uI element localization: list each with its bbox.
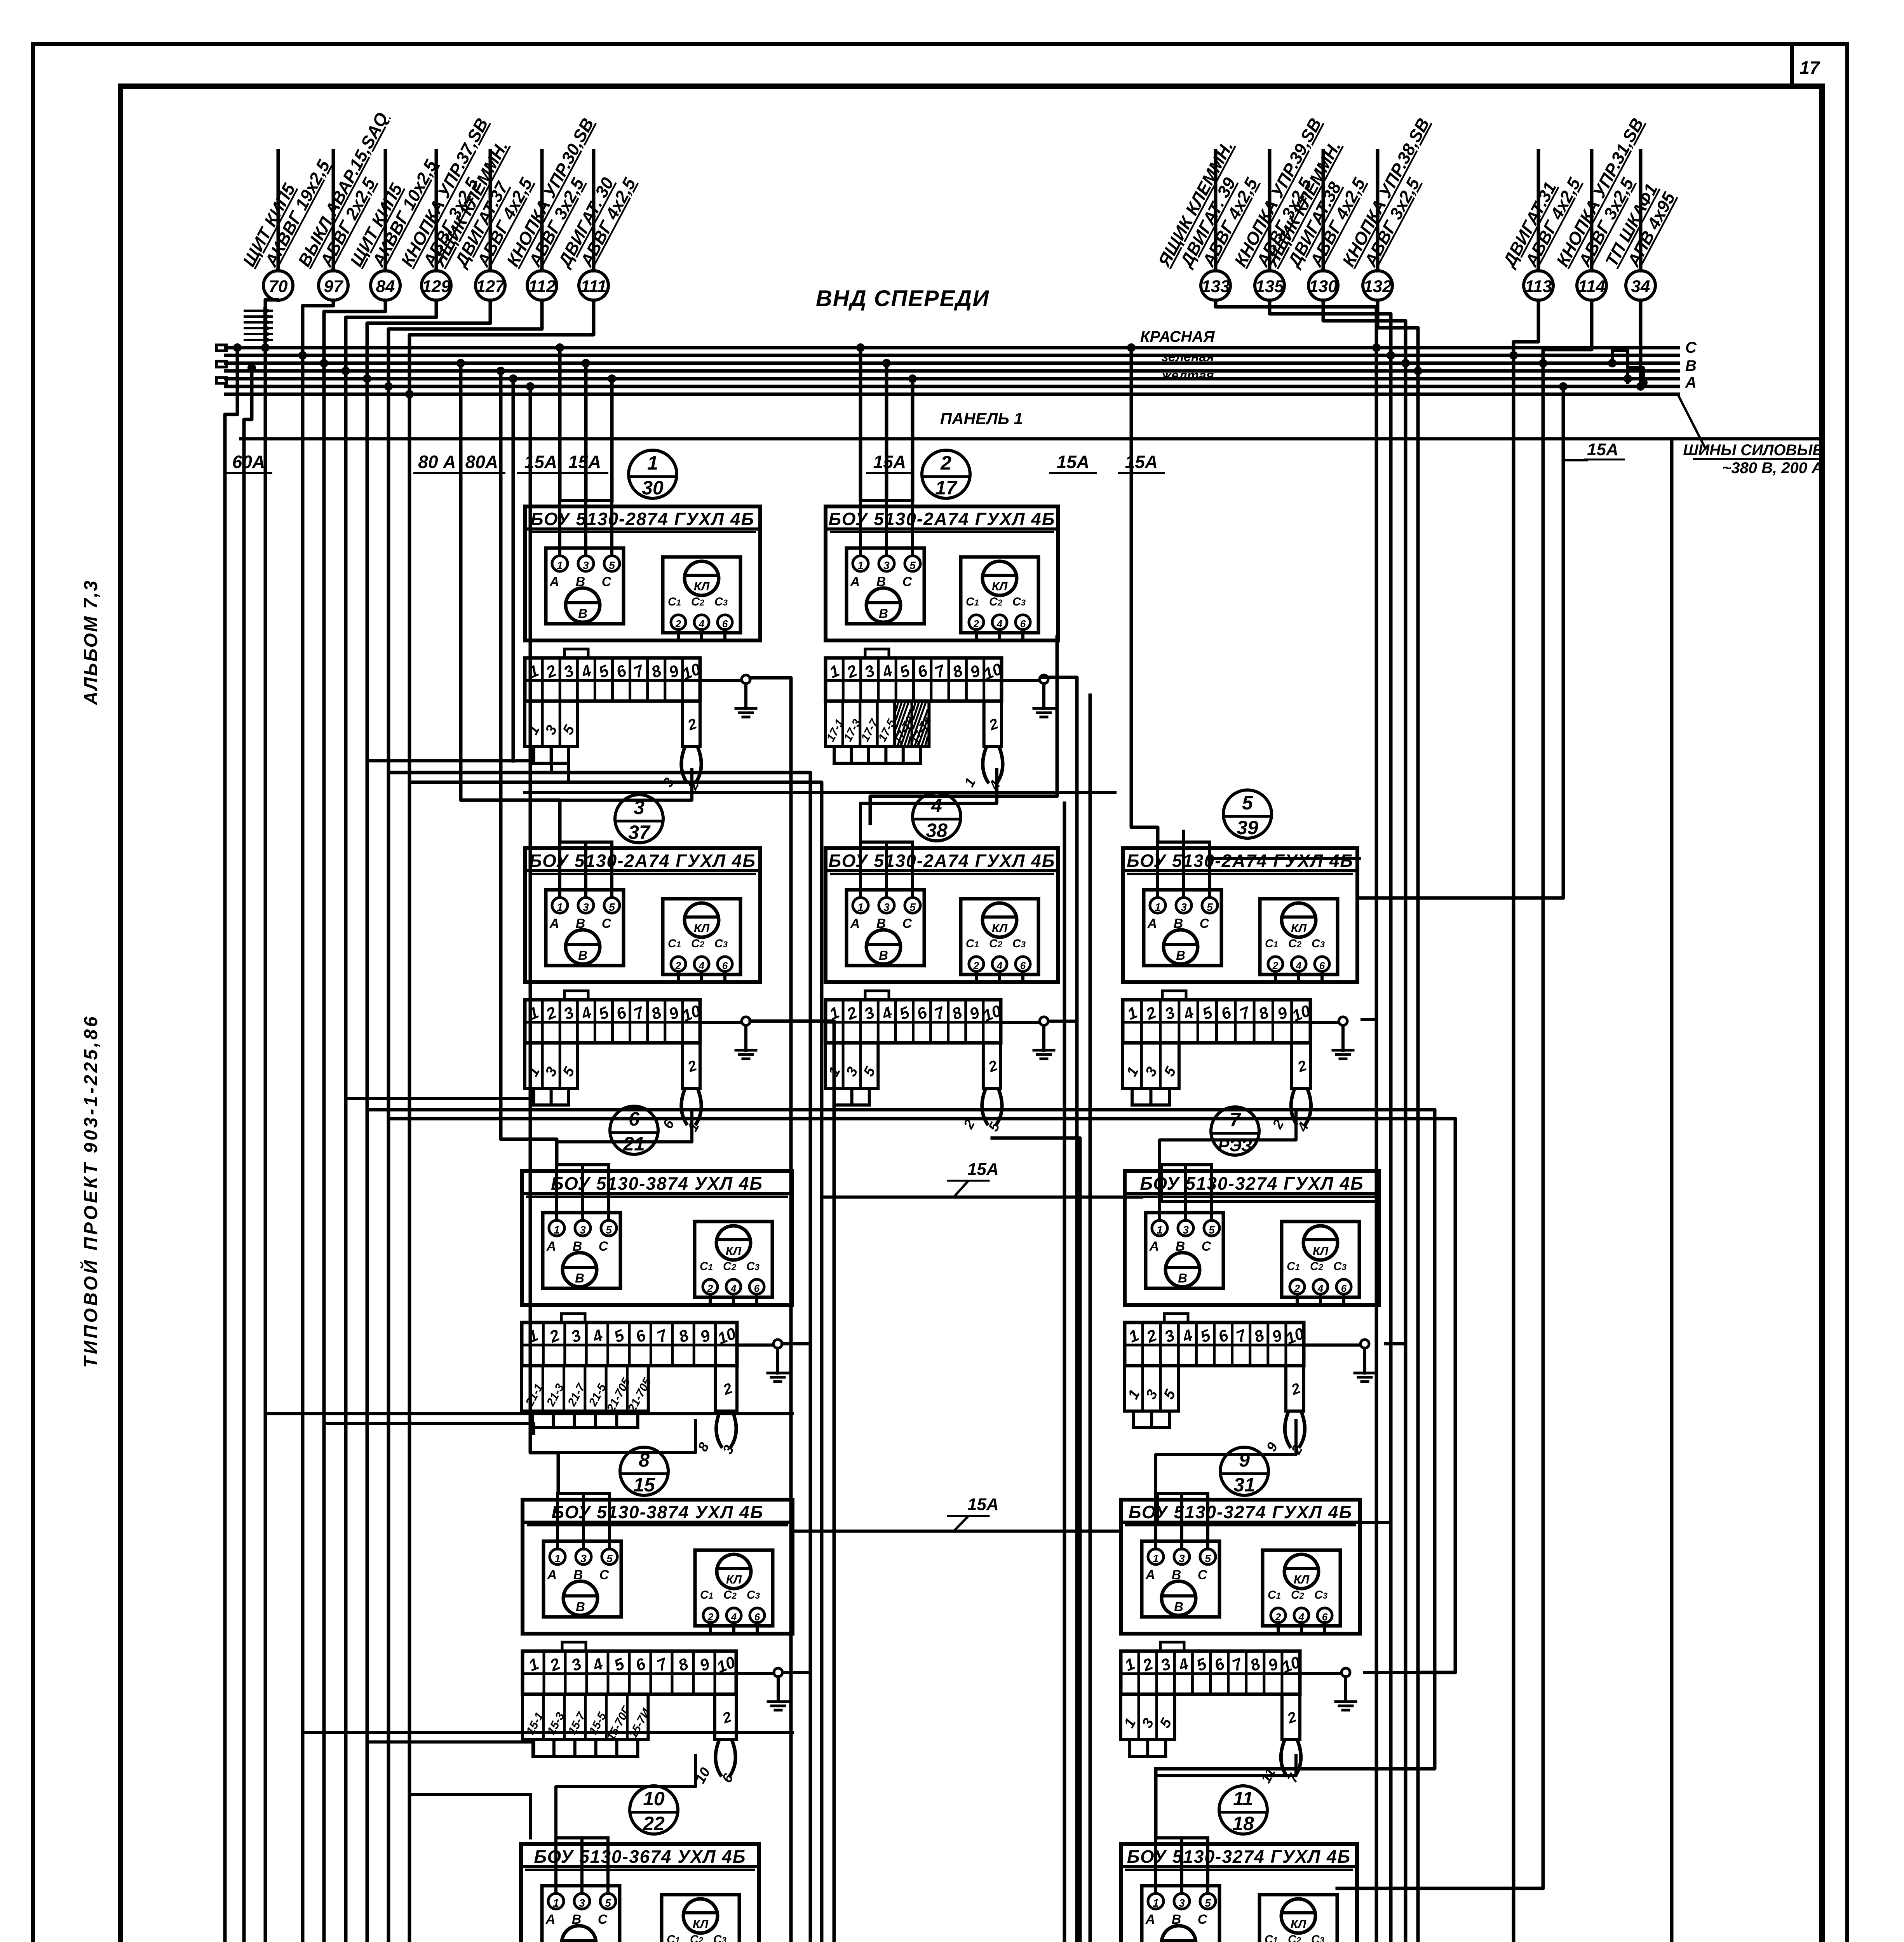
svg-text:КЛ: КЛ [1294, 1573, 1310, 1586]
KL circle [683, 1899, 718, 1933]
cable circle 127 [489, 151, 492, 271]
svg-text:С: С [1200, 916, 1209, 931]
row2 jog wires [346, 1091, 534, 1098]
meter circle [563, 1253, 597, 1287]
svg-text:1: 1 [557, 559, 563, 571]
pin 1 [548, 1893, 564, 1909]
block9 ground wire down [1364, 1671, 1418, 1674]
feed wire pin 3 [584, 500, 587, 556]
header bar [1125, 1192, 1379, 1195]
fork wires [681, 747, 688, 783]
pin 5 [1204, 1220, 1219, 1236]
meter circle [562, 1926, 596, 1942]
wire [1323, 300, 1406, 1942]
feed wire pin 3 [885, 500, 888, 556]
block3 ground wire [750, 1021, 834, 1942]
device block U6 БОУ 5130-3874 УХЛ 4Б [522, 1165, 792, 1457]
sub stub [573, 1411, 576, 1428]
ground [1310, 1021, 1339, 1024]
svg-text:3: 3 [580, 1224, 586, 1236]
feed wire pin 1 [859, 500, 862, 556]
device block U9 БОУ 5130-3274 ГУХЛ 4Б [1121, 1493, 1360, 1785]
designator circle 1/30 [629, 450, 677, 498]
svg-text:А: А [1149, 1239, 1159, 1254]
meter circle [566, 930, 600, 964]
fork wires [982, 1088, 988, 1125]
sub stub [833, 747, 836, 763]
cable circle 111 [592, 151, 596, 271]
feed wire pin 3 [580, 1838, 584, 1893]
pin 5 [1200, 1893, 1216, 1909]
svg-text:6: 6 [754, 1611, 760, 1623]
svg-text:114: 114 [1578, 277, 1605, 296]
terminal box ABC [546, 890, 624, 966]
svg-text:В: В [576, 1599, 585, 1614]
sub terminals [525, 701, 577, 747]
svg-text:БОУ 5130-2А74 ГУХЛ 4Б: БОУ 5130-2А74 ГУХЛ 4Б [829, 851, 1056, 871]
svg-text:~380 В, 200 А: ~380 В, 200 А [1722, 459, 1823, 477]
cable circle 133 [1214, 151, 1218, 271]
cable circle 97 [332, 151, 335, 271]
svg-text:В: В [1176, 948, 1185, 962]
sub stub [850, 1088, 854, 1105]
sub stub merge wire [834, 1103, 869, 1107]
svg-text:В: В [1685, 357, 1697, 374]
wire [1378, 300, 1418, 1942]
svg-text:80 А: 80 А [418, 452, 456, 472]
wire [1270, 300, 1391, 1942]
fork wires [1281, 1740, 1287, 1777]
svg-text:6: 6 [722, 618, 728, 630]
svg-text:КЛ: КЛ [992, 579, 1008, 593]
sub stub [552, 1740, 556, 1756]
svg-text:15А: 15А [1587, 440, 1618, 459]
svg-text:1: 1 [557, 901, 563, 913]
header bar [522, 1192, 792, 1195]
device block U5 БОУ 5130-2А74 ГУХЛ 4Б [1123, 842, 1357, 1134]
svg-text:А: А [1145, 1912, 1155, 1927]
terminal box ABC [1146, 1213, 1223, 1288]
svg-text:17: 17 [935, 477, 958, 499]
feed header wire [861, 840, 913, 844]
row1 sub-terminal jog wires [367, 750, 534, 761]
svg-text:6: 6 [1341, 1282, 1347, 1294]
sub stub [615, 1411, 618, 1428]
svg-text:ПАНЕЛЬ 1: ПАНЕЛЬ 1 [940, 409, 1023, 428]
svg-text:АЛЬБОМ 7,3: АЛЬБОМ 7,3 [81, 579, 101, 705]
svg-text:КЛ: КЛ [1313, 1244, 1329, 1258]
terminal box ABC [1144, 890, 1221, 966]
pin 6 [749, 1279, 764, 1294]
bus feed arrows [245, 310, 272, 312]
wire [303, 300, 333, 1942]
svg-text:5: 5 [909, 559, 916, 571]
cable circle 132 [1376, 151, 1380, 271]
wire mid pair2 [958, 695, 1090, 1942]
feed wire pin 3 [582, 1493, 585, 1549]
pin 2 [671, 615, 686, 630]
sub terminals [525, 1043, 577, 1088]
block5 feeds [1182, 831, 1185, 842]
pin 1 [1150, 898, 1165, 913]
cable circle 130 [1322, 151, 1325, 271]
pin 5 [905, 556, 920, 571]
terminal box ABC [543, 1213, 620, 1288]
feed wire pin 5 [1208, 842, 1211, 898]
sub stub [1150, 1411, 1153, 1428]
svg-text:111: 111 [581, 277, 607, 296]
svg-text:2: 2 [973, 618, 979, 630]
designator circle 4/38 [913, 793, 961, 841]
KL circle [717, 1554, 751, 1589]
feed header wire [557, 1492, 610, 1495]
svg-text:БОУ 5130-2А74 ГУХЛ 4Б: БОУ 5130-2А74 ГУХЛ 4Б [829, 509, 1056, 529]
feeds block1 drops [558, 348, 562, 500]
jumper bump [865, 991, 889, 1000]
pin 2 [703, 1279, 718, 1294]
feed wire pin 1 [558, 500, 561, 556]
svg-text:3: 3 [883, 901, 890, 913]
pin 3 [879, 898, 894, 913]
svg-text:84: 84 [376, 277, 395, 296]
svg-text:А: А [549, 916, 559, 931]
svg-text:А: А [547, 1568, 557, 1582]
terminal box ABC [544, 1541, 621, 1617]
KL circle [982, 561, 1017, 595]
top power bus (7 lines) [226, 346, 1678, 350]
wire right long [1670, 439, 1674, 1942]
sub terminals [1121, 1694, 1174, 1740]
cable circle 70 [277, 151, 280, 271]
15A drop right [1563, 459, 1587, 461]
sub stub [594, 1411, 597, 1428]
pin 5 [600, 1893, 616, 1909]
row3 jogs [265, 1412, 793, 1415]
svg-text:1: 1 [554, 1552, 561, 1564]
svg-text:С: С [1202, 1239, 1211, 1254]
sub terminals [523, 1694, 648, 1740]
device block U2 БОУ 5130-2А74 ГУХЛ 4Б [824, 500, 1058, 792]
svg-text:30: 30 [642, 477, 664, 499]
cable circle 112 [540, 151, 544, 271]
pin 3 [1174, 1893, 1190, 1909]
sub stub [567, 1088, 570, 1105]
cable circle 114 [1590, 151, 1594, 271]
jumper bump [562, 1642, 586, 1651]
svg-text:КЛ: КЛ [693, 1917, 709, 1931]
pin 1 [552, 898, 568, 913]
svg-text:БОУ 5130-3274 ГУХЛ 4Б: БОУ 5130-3274 ГУХЛ 4Б [1140, 1173, 1364, 1194]
svg-text:3: 3 [583, 901, 589, 913]
relay box КЛ [1260, 899, 1338, 974]
feed wire pin 3 [1180, 1838, 1183, 1893]
row3 to row4 wires [558, 1421, 695, 1493]
svg-text:2: 2 [707, 1282, 713, 1294]
svg-text:3: 3 [1181, 901, 1187, 913]
header bar [521, 1865, 759, 1868]
terminal strip 1-10 [525, 1000, 700, 1043]
wire from bus end down [225, 348, 237, 1942]
pin 4 [726, 1608, 741, 1623]
feed header wire [1160, 1163, 1212, 1166]
terminal box ABC [546, 548, 624, 624]
sub terminals [1125, 1366, 1178, 1411]
terminal 2 cell [1282, 1694, 1300, 1740]
sub stub [868, 1088, 871, 1105]
wire [1216, 300, 1376, 1942]
svg-text:6: 6 [722, 960, 728, 971]
svg-text:зеленая: зеленая [1162, 350, 1214, 364]
svg-text:3: 3 [580, 1552, 587, 1564]
svg-text:КЛ: КЛ [694, 579, 710, 593]
feed wire pin 5 [610, 500, 613, 556]
panel top line [241, 437, 1822, 440]
feed wire pin 1 [555, 1165, 558, 1220]
svg-text:1: 1 [647, 452, 658, 474]
pin 1 [549, 1220, 564, 1236]
svg-text:БОУ 5130-3274 ГУХЛ 4Б: БОУ 5130-3274 ГУХЛ 4Б [1127, 1846, 1351, 1867]
long mid vertical 2 [409, 782, 822, 1942]
svg-text:4: 4 [1298, 1611, 1305, 1623]
svg-text:4: 4 [699, 618, 705, 630]
feed wire pin 1 [859, 842, 862, 898]
sub stub merge wire [1130, 1755, 1165, 1758]
sub stub [1128, 1740, 1131, 1756]
svg-text:С: С [599, 1239, 608, 1254]
feed header wire [861, 499, 913, 502]
svg-text:2: 2 [675, 618, 681, 630]
svg-text:А: А [1145, 1568, 1155, 1582]
cable circle 135 [1268, 151, 1272, 271]
wire mid pair [1042, 677, 1077, 1942]
svg-text:В: В [575, 1271, 584, 1285]
svg-text:А: А [545, 1912, 556, 1927]
cable circle 34 [1639, 151, 1643, 271]
svg-text:КЛ: КЛ [992, 921, 1008, 935]
terminal 2 cell [715, 1694, 736, 1740]
pin 6 [750, 1608, 765, 1623]
svg-text:С: С [598, 1912, 608, 1927]
relay box КЛ [663, 899, 740, 974]
jumper bump [1160, 1642, 1184, 1651]
pin 6 [1016, 615, 1030, 630]
designator circle 3/37 [615, 795, 663, 843]
sub stub merge wire [534, 1103, 569, 1107]
sub stub [1146, 1740, 1149, 1756]
sub stub merge wire [533, 1755, 638, 1758]
device block U8 БОУ 5130-3874 УХЛ 4Б [523, 1493, 793, 1786]
terminal box ABC [1142, 1541, 1219, 1617]
sub stub [1131, 1088, 1134, 1105]
sub stub merge wire [1134, 1426, 1169, 1429]
wire 114 down [1337, 300, 1592, 1888]
header bar [826, 869, 1058, 872]
relay box КЛ [1259, 1895, 1337, 1942]
terminal 2 cell [683, 701, 700, 747]
ground [700, 1021, 742, 1024]
svg-text:КЛ: КЛ [694, 921, 710, 935]
svg-text:4: 4 [996, 960, 1003, 971]
pin 1 [552, 556, 568, 571]
svg-text:1: 1 [553, 1897, 559, 1909]
pin 2 [969, 615, 984, 630]
svg-text:18: 18 [1232, 1813, 1254, 1834]
designator circle 10/22 [630, 1786, 678, 1834]
svg-text:3: 3 [1183, 1224, 1189, 1236]
pin 4 [694, 957, 709, 971]
pin 3 [575, 1220, 591, 1236]
pin 5 [1200, 1549, 1216, 1564]
svg-text:70: 70 [269, 277, 288, 296]
svg-text:2: 2 [707, 1611, 714, 1623]
pin 6 [1336, 1279, 1351, 1294]
svg-text:БОУ 5130-2А74 ГУХЛ 4Б: БОУ 5130-2А74 ГУХЛ 4Б [1127, 851, 1354, 871]
feed wire pin 1 [1158, 1165, 1161, 1220]
jumper bump [865, 649, 889, 658]
svg-text:60А: 60А [232, 452, 265, 472]
terminal 2 cell [1286, 1366, 1304, 1411]
terminal box ABC [1142, 1886, 1219, 1942]
pin 3 [578, 898, 594, 913]
feed header wire [1158, 840, 1210, 844]
feed header wire [1156, 1492, 1208, 1495]
pin 3 [576, 1549, 591, 1564]
sub stub [567, 747, 570, 763]
feed wire pin 5 [608, 1493, 611, 1549]
terminal strip 1-10 [523, 1651, 736, 1694]
feed wire pin 1 [1154, 1838, 1157, 1893]
svg-text:ВНД СПЕРЕДИ: ВНД СПЕРЕДИ [816, 286, 989, 311]
terminal 2 cell [983, 1043, 1001, 1088]
svg-text:БОУ 5130-3674 УХЛ 4Б: БОУ 5130-3674 УХЛ 4Б [534, 1846, 746, 1867]
wire [324, 300, 385, 1942]
pin 5 [1202, 898, 1218, 913]
svg-text:6: 6 [1322, 1611, 1328, 1623]
sub stub merge wire [534, 762, 569, 765]
svg-text:127: 127 [476, 277, 505, 296]
KL circle [1281, 1899, 1315, 1933]
feed wire pin 3 [1180, 1493, 1183, 1549]
svg-text:В: В [1174, 1599, 1183, 1614]
svg-text:2: 2 [675, 960, 681, 971]
device block U4 БОУ 5130-2А74 ГУХЛ 4Б [826, 842, 1058, 1134]
feed header wire [556, 1836, 608, 1839]
wire [409, 300, 594, 1942]
jumper bump [561, 1314, 585, 1323]
pin 1 [1148, 1893, 1164, 1909]
wire [244, 368, 252, 1942]
ground [1002, 679, 1040, 682]
pin 1 [853, 898, 868, 913]
sub stub [919, 747, 922, 763]
svg-text:С: С [902, 574, 912, 589]
svg-text:133: 133 [1201, 277, 1230, 296]
svg-text:5: 5 [1205, 1552, 1211, 1564]
svg-text:129: 129 [422, 277, 451, 296]
terminal strip 1-10 [1121, 1651, 1300, 1694]
svg-text:15А: 15А [1057, 452, 1089, 472]
svg-text:4: 4 [1317, 1282, 1324, 1294]
svg-text:В: В [879, 948, 888, 962]
sub stub [1164, 1740, 1167, 1756]
svg-text:5: 5 [1209, 1224, 1215, 1236]
svg-text:15: 15 [633, 1474, 655, 1496]
relay box КЛ [961, 557, 1038, 633]
svg-text:С: С [602, 916, 611, 931]
pin 3 [879, 556, 894, 571]
sub stub [867, 747, 870, 763]
feed wire pin 1 [1156, 842, 1159, 898]
fork wires [1285, 1411, 1291, 1448]
block6 ground wire [782, 1342, 810, 1345]
wire 113 down [1514, 300, 1538, 1942]
header bar [1121, 1521, 1360, 1524]
fork wires [1291, 1088, 1297, 1125]
pin 2 [1268, 957, 1283, 971]
feed wire pin 3 [1182, 842, 1185, 898]
relay box КЛ [1282, 1222, 1359, 1297]
device block U11 БОУ 5130-3274 ГУХЛ 4Б [1120, 1838, 1357, 1942]
svg-text:С: С [1198, 1912, 1207, 1927]
svg-text:А: А [1685, 374, 1697, 391]
long mid vertical 1 [388, 773, 810, 1942]
svg-text:1: 1 [1157, 1224, 1163, 1236]
designator circle 6/21 [610, 1106, 658, 1154]
pin 4 [1294, 1608, 1309, 1623]
svg-text:15А: 15А [524, 452, 557, 472]
svg-text:1: 1 [857, 901, 864, 913]
svg-text:желтая: желтая [1161, 368, 1214, 383]
KL circle [685, 903, 719, 937]
device block U1 БОУ 5130-2874 ГУХЛ 4Б [525, 500, 760, 792]
svg-text:6: 6 [1319, 960, 1325, 971]
meter circle [866, 588, 901, 622]
sub stub [1149, 1088, 1152, 1105]
sub stub merge wire [1132, 1103, 1170, 1107]
sub stub merge wire [532, 1426, 638, 1429]
svg-text:В: В [578, 606, 587, 621]
svg-text:С: С [1685, 339, 1697, 356]
svg-text:6: 6 [754, 1282, 760, 1294]
meter circle [566, 588, 600, 622]
svg-text:5: 5 [1205, 1897, 1211, 1909]
pin 4 [694, 615, 709, 630]
svg-text:34: 34 [1631, 277, 1650, 296]
meter circle [1162, 1926, 1196, 1942]
svg-text:С: С [902, 916, 912, 931]
pin 3 [578, 556, 594, 571]
svg-text:1: 1 [1153, 1552, 1159, 1564]
feed header wire [1156, 1836, 1208, 1839]
svg-text:БОУ 5130-3274 ГУХЛ 4Б: БОУ 5130-3274 ГУХЛ 4Б [1129, 1502, 1352, 1522]
row4 to row5 wires [556, 1756, 695, 1838]
sub stub [1168, 1411, 1171, 1428]
device block U10 БОУ 5130-3674 УХЛ 4Б [520, 1838, 759, 1942]
feed header wire [560, 499, 612, 502]
sub terminals [826, 1043, 878, 1088]
svg-text:А: А [546, 1239, 556, 1254]
fork wires [716, 1740, 722, 1777]
header bar [1123, 869, 1357, 872]
header bar [525, 869, 760, 872]
wire block2 to block4 [870, 637, 1057, 823]
bus left end caps [216, 345, 226, 351]
svg-text:3: 3 [1179, 1897, 1185, 1909]
sub stub [615, 1740, 618, 1756]
terminal 2 cell [984, 701, 1002, 747]
feed wire pin 5 [1210, 1165, 1213, 1220]
pin 4 [726, 1279, 741, 1294]
